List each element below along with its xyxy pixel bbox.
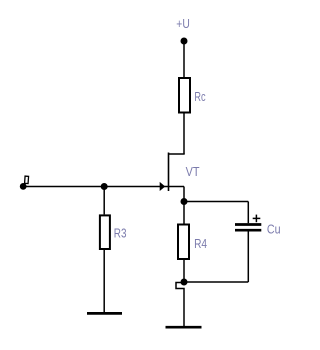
svg-text:R3: R3 [114, 226, 127, 240]
svg-text:VT: VT [186, 165, 200, 179]
svg-text:R4: R4 [194, 237, 207, 251]
svg-text:Cu: Cu [267, 223, 281, 237]
svg-text:Rc: Rc [194, 90, 205, 104]
svg-text:+U: +U [176, 17, 190, 31]
